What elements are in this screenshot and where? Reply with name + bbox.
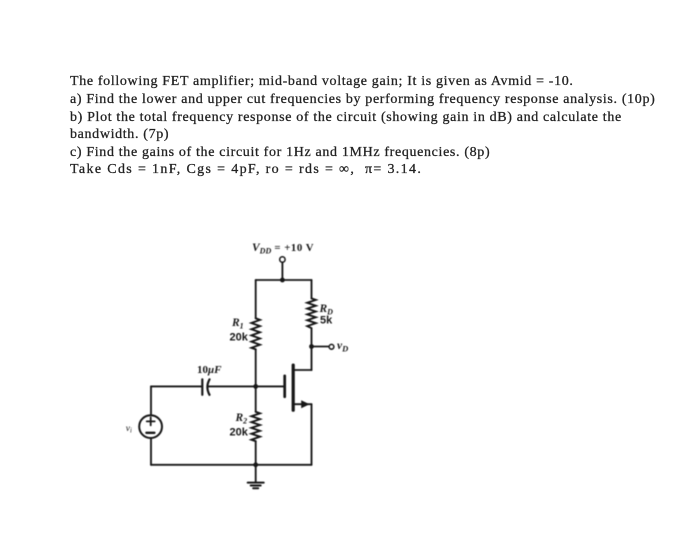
- svg-text:5k: 5k: [320, 315, 333, 327]
- svg-text:20k: 20k: [230, 332, 249, 344]
- svg-text:vD: vD: [337, 340, 348, 354]
- svg-text:10μF: 10μF: [197, 364, 222, 376]
- svg-text:VDD = +10 V: VDD = +10 V: [252, 242, 314, 256]
- svg-text:20k: 20k: [230, 427, 249, 439]
- svg-text:R1: R1: [231, 317, 244, 331]
- svg-text:vi: vi: [126, 424, 132, 435]
- svg-text:R2: R2: [235, 412, 248, 426]
